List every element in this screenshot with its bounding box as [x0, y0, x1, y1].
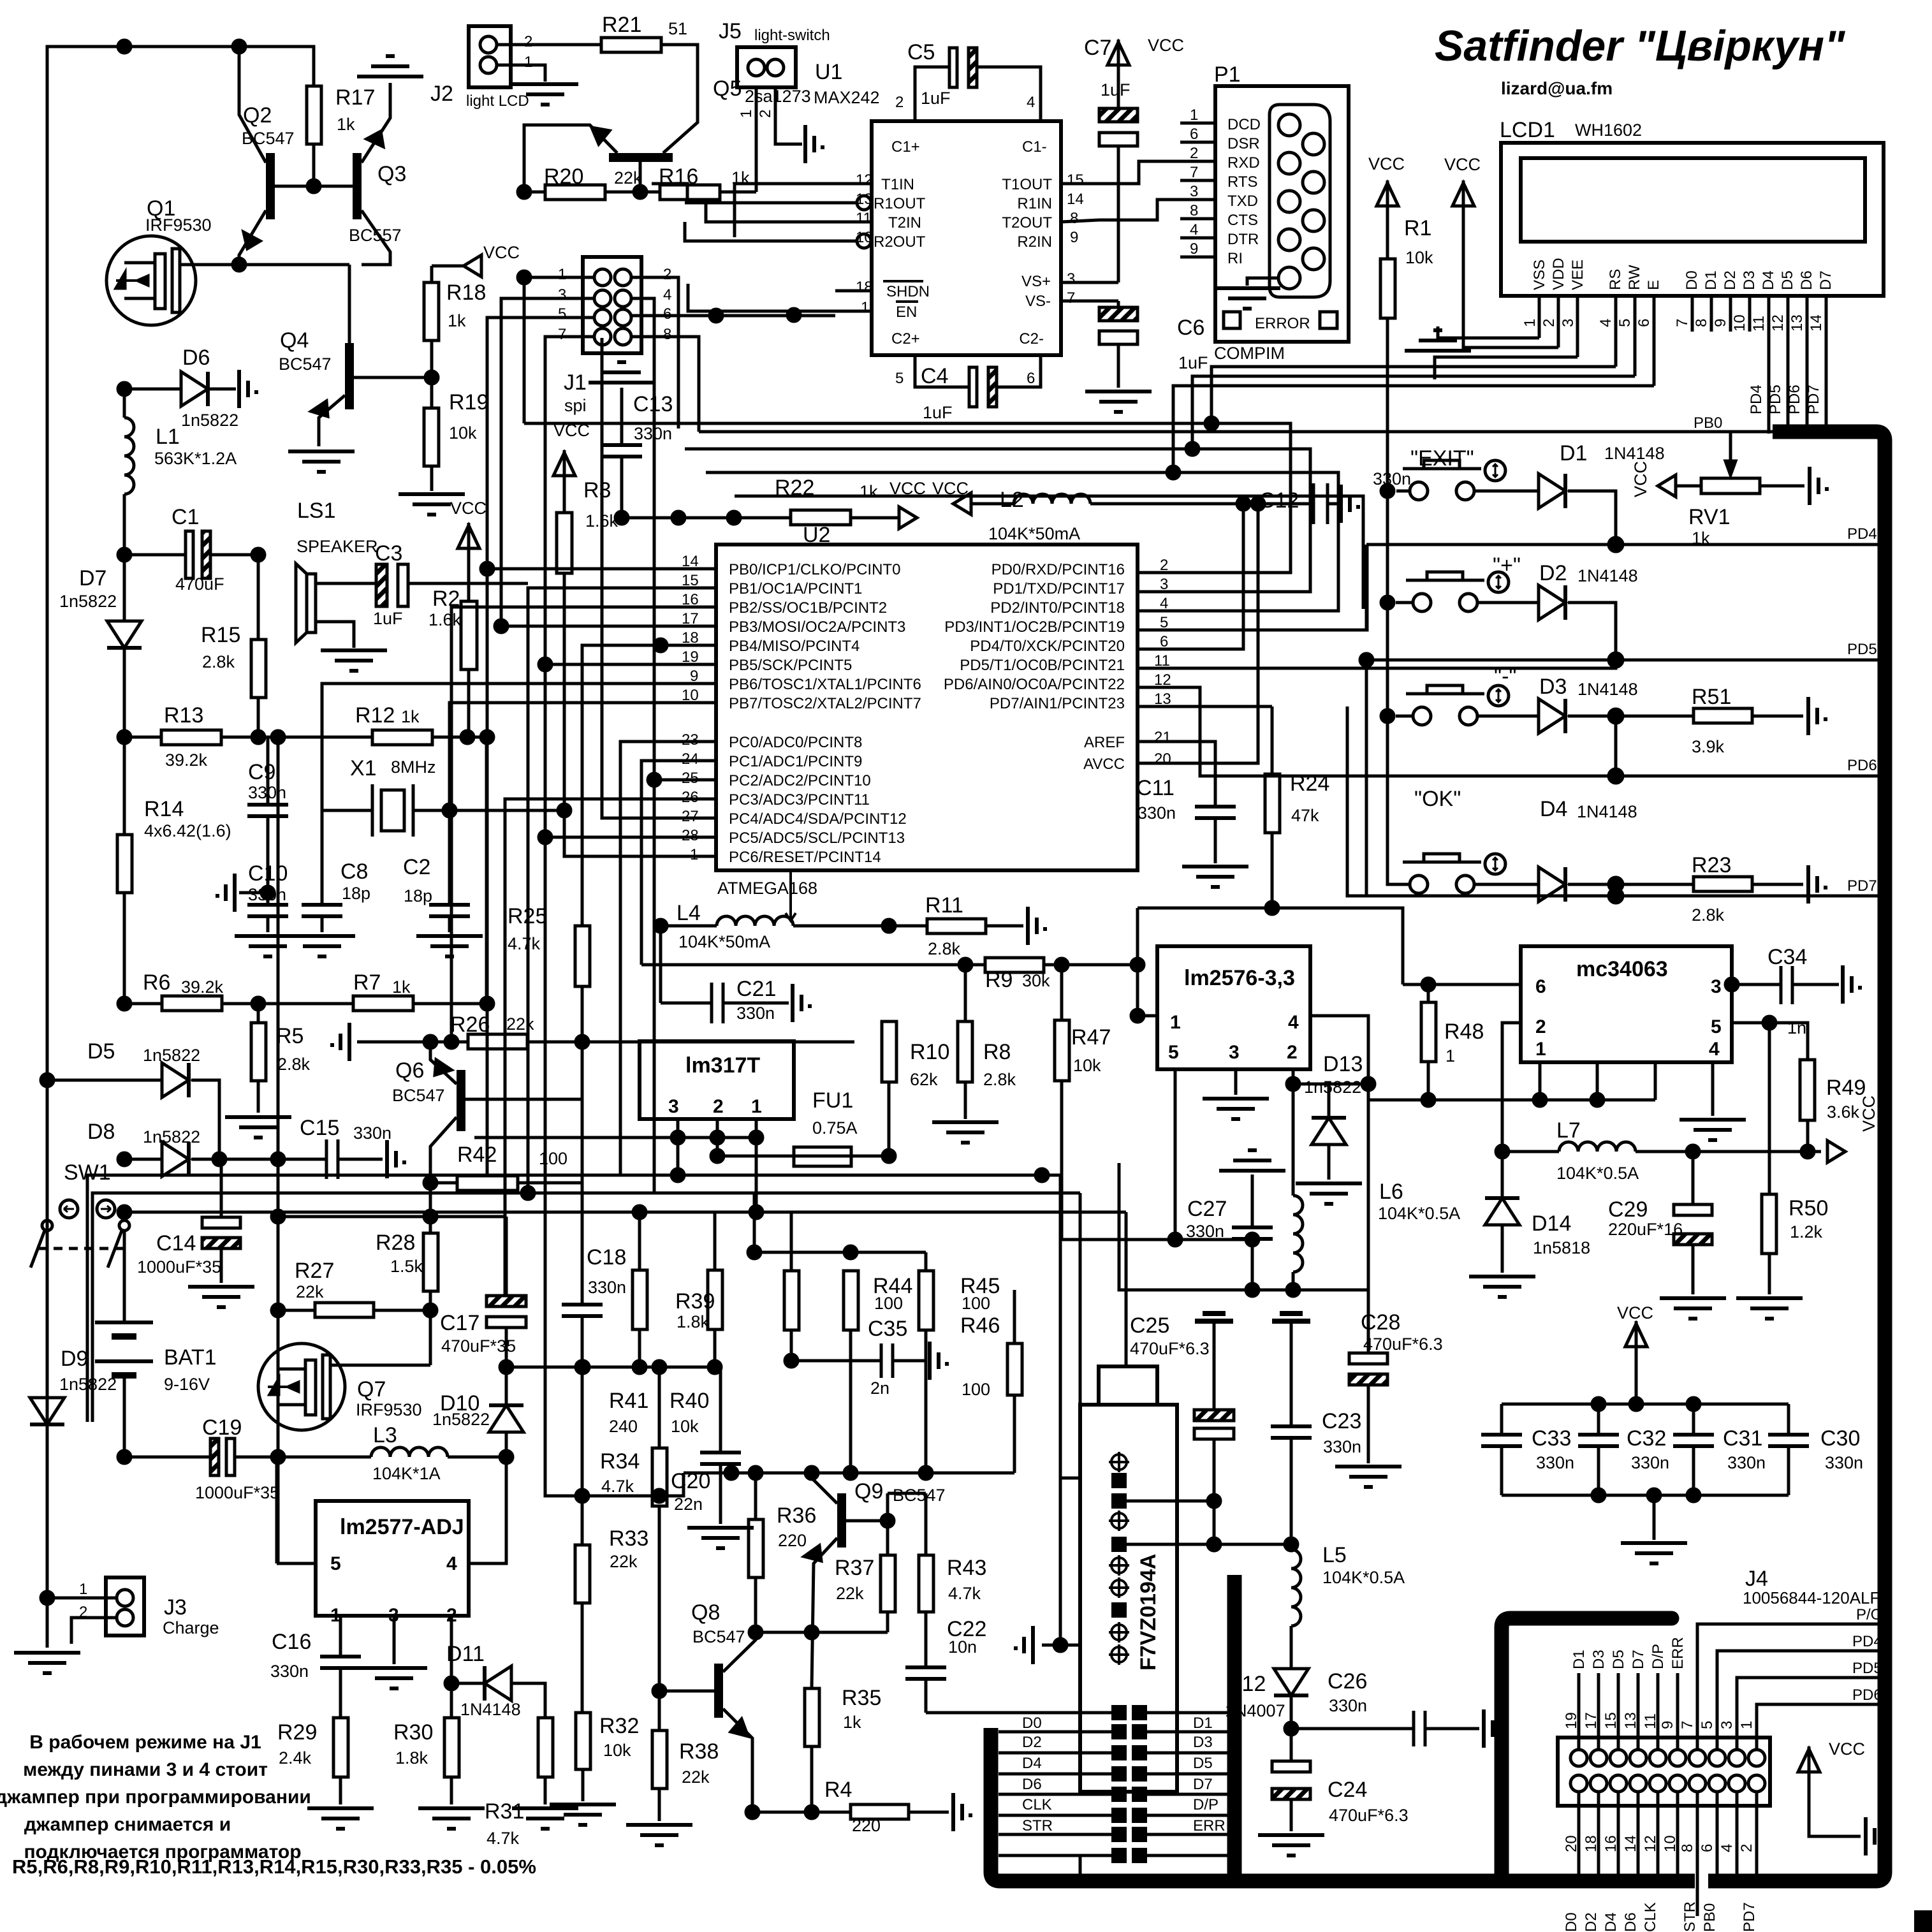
- ground left of F7VZ: [1014, 1626, 1033, 1664]
- svg-text:330n: 330n: [1323, 1437, 1361, 1456]
- connector J3: [106, 1577, 144, 1636]
- svg-text:L6: L6: [1379, 1180, 1403, 1204]
- resistor R38: [652, 1731, 667, 1789]
- svg-text:17: 17: [1583, 1712, 1600, 1729]
- LCD pin stubs: [1539, 296, 1826, 434]
- svg-text:P1: P1: [1214, 62, 1241, 87]
- wire J2 pin2 to R21: [497, 43, 601, 47]
- svg-text:14: 14: [1067, 191, 1084, 208]
- wire ATMEGA gnd arrow: [786, 870, 796, 921]
- resistor R43: [925, 1493, 928, 1555]
- wire Q5 left to column: [524, 125, 546, 192]
- svg-text:EN: EN: [896, 304, 917, 321]
- svg-text:PD6/AIN0/OC0A/PCINT22: PD6/AIN0/OC0A/PCINT22: [944, 676, 1125, 693]
- diode D6: [118, 383, 131, 395]
- resistor R3: [557, 513, 572, 573]
- svg-text:PD1/TXD/PCINT17: PD1/TXD/PCINT17: [993, 580, 1125, 597]
- wire row 664: [1205, 417, 1218, 430]
- wire J1 pin7: [545, 337, 659, 1496]
- diode D2: [1539, 585, 1565, 620]
- svg-text:C7: C7: [1084, 36, 1111, 60]
- wire row 778: [735, 496, 1363, 609]
- svg-text:9: 9: [1070, 229, 1078, 246]
- svg-text:C5: C5: [907, 40, 935, 64]
- wire row R13 R12: [124, 736, 161, 739]
- svg-text:R2OUT: R2OUT: [874, 233, 926, 251]
- capacitor C29: [1692, 1152, 1695, 1204]
- wire AREF C11: [1174, 742, 1215, 807]
- svg-text:Q8: Q8: [691, 1600, 720, 1625]
- wire mc34063 pin5: [1732, 1023, 1808, 1060]
- wire PC2: [654, 779, 680, 782]
- svg-text:VCC: VCC: [932, 479, 969, 498]
- svg-text:Q6: Q6: [395, 1058, 424, 1083]
- connector J2: [469, 26, 511, 87]
- svg-text:D8: D8: [87, 1120, 115, 1144]
- wire PB5: [545, 663, 680, 666]
- svg-text:C28: C28: [1361, 1310, 1400, 1335]
- svg-text:2: 2: [1540, 319, 1558, 327]
- wire PD3 keypad: [1174, 545, 1367, 630]
- svg-text:2: 2: [757, 110, 774, 118]
- svg-text:10n: 10n: [948, 1637, 977, 1657]
- capacitor C23: [1272, 1314, 1310, 1321]
- svg-text:CLK: CLK: [1642, 1902, 1659, 1932]
- svg-text:IRF9530: IRF9530: [145, 216, 212, 235]
- svg-text:4: 4: [1597, 319, 1614, 327]
- diode D10: [489, 1405, 523, 1432]
- wire D13 node row: [1293, 1083, 1368, 1086]
- resistor R9: [985, 958, 1044, 972]
- resistor R29: [333, 1718, 348, 1777]
- wire left rail: [46, 555, 49, 1648]
- svg-text:Q7: Q7: [357, 1377, 386, 1401]
- wire thick stub F7VZ: [1227, 1575, 1242, 1876]
- wire mc34063 bottom pins: [1539, 1062, 1542, 1100]
- svg-text:1n5818: 1n5818: [1533, 1238, 1590, 1257]
- svg-text:C9: C9: [248, 760, 275, 784]
- wire PD5 row: [1366, 659, 1878, 662]
- svg-text:PB0: PB0: [1701, 1903, 1718, 1932]
- svg-text:X1: X1: [350, 756, 377, 780]
- svg-text:IRF9530: IRF9530: [356, 1400, 422, 1419]
- svg-text:4.7k: 4.7k: [487, 1829, 520, 1848]
- svg-text:PD6: PD6: [1847, 757, 1877, 774]
- svg-text:330n: 330n: [1186, 1222, 1224, 1241]
- svg-text:11: 11: [856, 210, 872, 227]
- IC mc34063: [1521, 946, 1732, 1062]
- wire keypad left rail: [1387, 491, 1410, 884]
- svg-text:Satfinder "Цвіркун": Satfinder "Цвіркун": [1435, 22, 1845, 70]
- resistor R28: [429, 1183, 432, 1233]
- svg-text:22k: 22k: [610, 1552, 638, 1571]
- svg-text:DSR: DSR: [1227, 135, 1260, 152]
- svg-text:C13: C13: [633, 392, 673, 416]
- resistor R36: [754, 1473, 757, 1519]
- J4 bottom stubs: [1577, 1792, 1581, 1884]
- svg-text:15: 15: [1067, 172, 1084, 189]
- wire row 1725 mc34063: [1368, 1099, 1655, 1102]
- svg-text:SHDN: SHDN: [886, 283, 930, 300]
- wire AVCC: [1174, 504, 1258, 763]
- svg-text:1.5k: 1.5k: [390, 1257, 423, 1276]
- svg-text:5: 5: [1711, 1016, 1722, 1037]
- svg-text:1n5822: 1n5822: [181, 411, 238, 430]
- svg-text:PD0/RXD/PCINT16: PD0/RXD/PCINT16: [992, 561, 1125, 578]
- svg-text:VCC: VCC: [1444, 155, 1481, 174]
- svg-text:C33: C33: [1532, 1426, 1571, 1451]
- svg-text:джампер снимается и: джампер снимается и: [24, 1814, 231, 1835]
- svg-text:C6: C6: [1177, 316, 1204, 340]
- svg-text:DCD: DCD: [1227, 116, 1261, 133]
- resistor R12: [372, 730, 432, 745]
- diode D14: [1501, 1152, 1504, 1198]
- svg-text:1: 1: [524, 54, 532, 71]
- svg-text:22k: 22k: [614, 168, 642, 187]
- wire PB1: [528, 588, 680, 1193]
- wire R9 row: [641, 963, 985, 967]
- wires P1 to U1: [1099, 161, 1180, 184]
- svg-text:1: 1: [1445, 1046, 1455, 1065]
- resistor R26: [330, 1023, 349, 1061]
- capacitor C24: [1290, 1729, 1293, 1761]
- svg-text:PB0/ICP1/CLKO/PCINT0: PB0/ICP1/CLKO/PCINT0: [729, 561, 900, 578]
- svg-text:12: 12: [1769, 314, 1787, 332]
- svg-text:PC6/RESET/PCINT14: PC6/RESET/PCINT14: [729, 849, 881, 866]
- inductor L4: [654, 919, 667, 932]
- svg-text:1k: 1k: [401, 707, 420, 726]
- wire PB4: [582, 645, 680, 926]
- transistor Q3: [353, 153, 362, 219]
- svg-text:ERR: ERR: [1193, 1817, 1226, 1834]
- svg-text:C2+: C2+: [891, 330, 920, 348]
- svg-text:lizard@ua.fm: lizard@ua.fm: [1501, 78, 1613, 98]
- svg-text:D7: D7: [79, 566, 106, 590]
- wire row PB0 net: [699, 430, 1366, 434]
- transistor Q9: [837, 1493, 846, 1548]
- svg-text:J1: J1: [564, 370, 587, 395]
- svg-text:R30: R30: [393, 1720, 433, 1745]
- wire LCD vss to gnd: [1438, 326, 1539, 338]
- resistor R27: [278, 1309, 315, 1312]
- svg-text:2.8k: 2.8k: [277, 1055, 311, 1074]
- svg-text:D6: D6: [1022, 1776, 1042, 1793]
- svg-text:D2: D2: [1022, 1734, 1042, 1751]
- wire data rows left: [1022, 1715, 1226, 1834]
- IC U2 ATMEGA168: [716, 545, 1138, 870]
- LCD1 WH1602: [1501, 143, 1884, 296]
- svg-text:8: 8: [1070, 210, 1078, 227]
- svg-text:PD7: PD7: [1741, 1902, 1758, 1932]
- resistor R14: [123, 737, 126, 835]
- svg-text:D/P: D/P: [1650, 1644, 1667, 1669]
- resistor R44: [844, 1271, 858, 1330]
- svg-text:C17: C17: [440, 1311, 479, 1335]
- svg-text:R25: R25: [508, 904, 547, 928]
- svg-text:330n: 330n: [736, 1004, 775, 1023]
- svg-text:1uF: 1uF: [1178, 353, 1208, 372]
- svg-text:5: 5: [330, 1553, 341, 1574]
- capacitor C28: [1349, 1353, 1387, 1364]
- svg-text:R48: R48: [1444, 1020, 1484, 1044]
- resistor R18: [424, 282, 439, 340]
- svg-text:Q2: Q2: [243, 103, 272, 128]
- wire R20 R16 row: [518, 186, 531, 198]
- svg-text:BC547: BC547: [893, 1486, 946, 1505]
- svg-text:4: 4: [1718, 1844, 1736, 1852]
- IC U1 MAX242: [872, 121, 1061, 355]
- wire row 2310: [684, 1472, 1014, 1475]
- capacitor C12: [1312, 483, 1315, 524]
- svg-text:19: 19: [1563, 1712, 1580, 1729]
- svg-text:SPEAKER: SPEAKER: [296, 537, 378, 556]
- svg-text:1: 1: [738, 110, 755, 118]
- svg-text:4.7k: 4.7k: [508, 934, 541, 953]
- transistor Q2: [266, 153, 275, 219]
- svg-text:1uF: 1uF: [1101, 80, 1131, 99]
- wire LCD vee: [1435, 357, 1577, 379]
- wire thick corner blob: [1914, 1910, 1932, 1932]
- svg-text:1uF: 1uF: [373, 609, 403, 628]
- svg-text:DTR: DTR: [1227, 231, 1259, 248]
- lm317 pin stubs: [677, 1119, 680, 1175]
- svg-text:P/O: P/O: [1856, 1606, 1882, 1623]
- svg-text:1000uF*35: 1000uF*35: [137, 1257, 221, 1277]
- svg-text:470uF: 470uF: [175, 574, 224, 594]
- wire PD6 pin row: [1174, 687, 1367, 776]
- ground lm2577 pin3: [393, 1616, 396, 1664]
- svg-text:"OK": "OK": [1414, 787, 1461, 811]
- svg-text:470uF*6.3: 470uF*6.3: [1363, 1335, 1443, 1354]
- svg-text:10056844-120ALF: 10056844-120ALF: [1743, 1588, 1880, 1607]
- svg-text:E: E: [1645, 280, 1662, 290]
- svg-text:PB3/MOSI/OC2A/PCINT3: PB3/MOSI/OC2A/PCINT3: [729, 618, 905, 636]
- svg-text:6: 6: [1636, 319, 1653, 327]
- svg-text:9: 9: [1712, 319, 1729, 327]
- svg-text:1N4007: 1N4007: [1225, 1701, 1285, 1720]
- svg-text:100: 100: [962, 1380, 990, 1399]
- wire L2 C12 row: [953, 493, 971, 515]
- wire VCC to R18 top: [430, 266, 434, 282]
- svg-text:2.8k: 2.8k: [983, 1070, 1016, 1089]
- wire J5 pin2 to gnd: [775, 87, 802, 144]
- svg-text:22k: 22k: [296, 1282, 324, 1301]
- svg-text:R1OUT: R1OUT: [874, 195, 926, 212]
- svg-text:F7VZ0194A: F7VZ0194A: [1136, 1554, 1160, 1671]
- svg-text:C3: C3: [375, 541, 402, 566]
- wire J1 pin1: [524, 276, 594, 279]
- svg-text:R1IN: R1IN: [1017, 195, 1052, 212]
- svg-text:3.6k: 3.6k: [1827, 1102, 1860, 1122]
- ground P1 internal: [1247, 278, 1278, 286]
- wire rows F7VZ: [1119, 1500, 1214, 1503]
- svg-text:RXD: RXD: [1227, 154, 1260, 172]
- resistor R34: [658, 1367, 661, 1448]
- svg-text:R14: R14: [144, 797, 184, 821]
- svg-text:R3: R3: [583, 478, 611, 502]
- svg-text:VCC: VCC: [1859, 1095, 1878, 1132]
- svg-text:VSS: VSS: [1531, 260, 1548, 290]
- svg-text:C27: C27: [1187, 1197, 1227, 1221]
- svg-text:L1: L1: [156, 425, 180, 449]
- svg-text:4x6.42(1.6): 4x6.42(1.6): [144, 821, 231, 840]
- svg-text:T1IN: T1IN: [881, 176, 914, 193]
- wire row 1784: [474, 1136, 756, 1139]
- svg-text:R6: R6: [143, 970, 170, 995]
- capacitor C9: [267, 737, 270, 805]
- resistor R15: [257, 555, 260, 640]
- svg-text:L4: L4: [677, 901, 701, 925]
- resistor R47: [1060, 965, 1064, 1020]
- resistor R32: [576, 1713, 590, 1769]
- IC lm2577: [316, 1501, 469, 1616]
- svg-text:RW: RW: [1626, 265, 1643, 290]
- capacitor C3: [376, 564, 387, 606]
- svg-text:1: 1: [861, 299, 869, 316]
- wire row 1908: [278, 1215, 506, 1218]
- svg-text:3: 3: [1711, 976, 1722, 997]
- svg-text:VCC: VCC: [889, 479, 926, 498]
- wire PC5: [545, 836, 680, 839]
- resistor R22: [622, 516, 791, 520]
- svg-text:4: 4: [1027, 94, 1035, 111]
- resistor R39: [790, 1212, 793, 1271]
- wire PD7 pin row: [1174, 705, 1272, 708]
- ground above Q3: [357, 56, 423, 77]
- svg-text:330n: 330n: [588, 1278, 626, 1297]
- wire Q8 collector row: [756, 1631, 888, 1634]
- svg-text:2: 2: [79, 1604, 87, 1621]
- svg-text:ATMEGA168: ATMEGA168: [717, 879, 817, 898]
- svg-text:4: 4: [1709, 1039, 1720, 1060]
- svg-text:330n: 330n: [1536, 1453, 1574, 1472]
- resistor R6: [162, 996, 222, 1011]
- capacitor C8: [321, 810, 324, 905]
- svg-text:J2: J2: [430, 82, 453, 106]
- svg-text:D7: D7: [1817, 270, 1834, 290]
- svg-text:1.8k: 1.8k: [395, 1748, 428, 1767]
- svg-text:C10: C10: [248, 861, 288, 886]
- svg-text:C8: C8: [340, 860, 368, 884]
- svg-text:1: 1: [1521, 319, 1539, 327]
- svg-text:220: 220: [778, 1531, 807, 1550]
- svg-text:PD7: PD7: [1805, 384, 1822, 414]
- svg-text:1n5822: 1n5822: [143, 1046, 200, 1065]
- svg-text:COMPIM: COMPIM: [1214, 344, 1285, 363]
- svg-text:PD7/AIN1/PCINT23: PD7/AIN1/PCINT23: [990, 695, 1125, 712]
- IC lm317T: [640, 1041, 794, 1119]
- svg-text:5: 5: [558, 305, 566, 323]
- svg-text:4: 4: [1288, 1012, 1299, 1033]
- wire J1 pin3: [501, 298, 680, 626]
- capacitor C15: [325, 1139, 328, 1179]
- wire keypad left verticals: [1365, 545, 1368, 630]
- svg-text:CLK: CLK: [1022, 1796, 1052, 1813]
- svg-text:3: 3: [668, 1096, 679, 1117]
- diode D4: [1539, 867, 1565, 902]
- svg-text:3: 3: [1190, 183, 1198, 200]
- svg-text:PD7: PD7: [1847, 877, 1877, 895]
- wire thick bus right and bottom: [1708, 432, 1885, 1881]
- svg-text:VCC: VCC: [483, 243, 520, 262]
- J4 labels top: [1563, 1637, 1758, 1932]
- svg-text:PC5/ADC5/SCL/PCINT13: PC5/ADC5/SCL/PCINT13: [729, 830, 905, 847]
- svg-text:104K*1A: 104K*1A: [372, 1464, 441, 1483]
- svg-text:2: 2: [1738, 1844, 1755, 1852]
- svg-text:2: 2: [1287, 1042, 1298, 1063]
- svg-text:PD4: PD4: [1748, 384, 1765, 414]
- svg-text:20: 20: [1154, 750, 1171, 768]
- svg-text:2: 2: [663, 266, 671, 283]
- wire R6 row: [118, 997, 131, 1010]
- svg-text:D6: D6: [1622, 1912, 1639, 1932]
- svg-text:PD6: PD6: [1852, 1687, 1882, 1704]
- ground stub left of C10: [239, 891, 268, 895]
- svg-text:J3: J3: [164, 1595, 187, 1620]
- svg-text:2.8k: 2.8k: [1692, 905, 1725, 925]
- resistor R4: [752, 1811, 851, 1814]
- resistor R48: [1421, 1002, 1436, 1062]
- svg-text:D1: D1: [1560, 441, 1587, 465]
- svg-text:R50: R50: [1789, 1196, 1828, 1220]
- mosfet Q7: [258, 1343, 345, 1430]
- svg-text:62k: 62k: [910, 1070, 938, 1089]
- svg-text:5: 5: [895, 370, 904, 387]
- svg-text:10: 10: [1731, 314, 1748, 332]
- wire J1 pin6: [631, 314, 835, 318]
- ground below R19: [399, 494, 465, 515]
- svg-text:LCD1: LCD1: [1500, 118, 1555, 142]
- wire row 1843: [87, 1175, 1060, 1422]
- capacitor C11: [1195, 807, 1236, 818]
- svg-text:1: 1: [79, 1581, 87, 1598]
- IC P1 COMPIM: [1215, 86, 1349, 342]
- capacitor C18: [562, 1305, 603, 1316]
- resistor R30: [444, 1718, 459, 1777]
- wire mc34063 pin6: [1403, 983, 1521, 986]
- svg-text:L5: L5: [1322, 1543, 1347, 1567]
- svg-text:1k: 1k: [843, 1713, 861, 1732]
- svg-text:3: 3: [1560, 319, 1577, 327]
- svg-text:R39: R39: [675, 1289, 715, 1314]
- svg-text:330n: 330n: [1138, 803, 1176, 823]
- svg-text:R11: R11: [925, 893, 963, 918]
- wire PB7 to X1: [450, 703, 680, 810]
- capacitor C25: [1195, 1314, 1233, 1321]
- svg-text:RTS: RTS: [1227, 173, 1258, 191]
- svg-text:BC547: BC547: [392, 1086, 445, 1105]
- svg-text:C11: C11: [1136, 776, 1175, 800]
- wire RV1 arm: [1729, 432, 1732, 467]
- svg-text:T2IN: T2IN: [888, 214, 921, 231]
- wire lm2577 pin4: [469, 1457, 506, 1563]
- svg-text:CTS: CTS: [1227, 212, 1258, 229]
- resistor R5: [257, 1004, 260, 1023]
- svg-text:R42: R42: [457, 1143, 497, 1167]
- wire R26 row right: [527, 1041, 854, 1044]
- svg-text:PD6: PD6: [1786, 384, 1803, 414]
- svg-text:4.7k: 4.7k: [948, 1584, 981, 1603]
- svg-text:4: 4: [1190, 221, 1198, 238]
- svg-text:В рабочем режиме на J1: В рабочем режиме на J1: [29, 1732, 261, 1753]
- svg-text:1uF: 1uF: [923, 403, 953, 422]
- svg-text:PC4/ADC4/SDA/PCINT12: PC4/ADC4/SDA/PCINT12: [729, 810, 907, 828]
- wire row 2144: [506, 1366, 721, 1369]
- wire J5 pin1 down: [755, 87, 758, 192]
- svg-text:C25: C25: [1130, 1314, 1169, 1338]
- capacitor C10: [247, 905, 288, 916]
- svg-text:6: 6: [1699, 1844, 1716, 1852]
